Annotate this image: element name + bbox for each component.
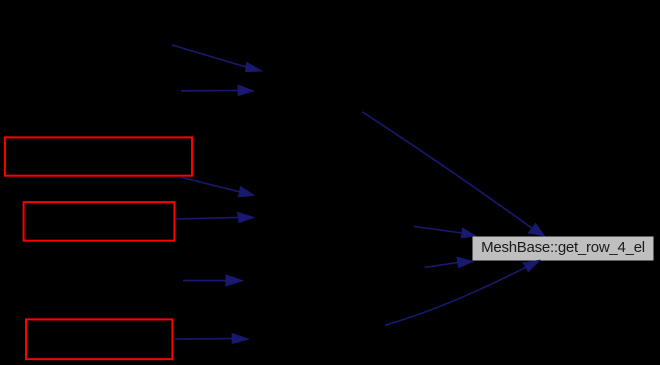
edge arrow E3: long diagonal from top middle node to MeshBase::get_row_4_el <box>362 112 544 236</box>
edge arrow E2: second top-left caller to top middle node <box>181 85 254 96</box>
edge arrow E4: from red box R1 to middle node <box>180 177 254 197</box>
edge arrow E6: middle horizontal arrow <box>183 275 243 286</box>
edge arrow E1: top-left caller to top middle node <box>172 45 262 72</box>
edge arrow E5: from red box R2 to middle node <box>176 212 254 222</box>
edge arrow E8: middle node into left edge of MeshBase::get_row_4_el <box>414 227 475 238</box>
edge arrow E9: lower middle node into bottom-left corner of MeshBase::get_row_4_el <box>425 257 473 267</box>
node box R2 (red highlighted caller) <box>24 202 175 241</box>
edge arrow E7: from red box R3 to lower middle node <box>175 333 249 343</box>
node MeshBase::get_row_4_el (current node, gray) <box>472 236 654 261</box>
node box R1 (red highlighted caller) <box>5 137 192 175</box>
svg-text:MeshBase::get_row_4_el: MeshBase::get_row_4_el <box>481 239 645 256</box>
node box R3 (red highlighted caller) <box>26 319 172 359</box>
edge arrow E10: curved edge from bottom node into bottom edge of MeshBase::get_row_4_el <box>385 260 539 325</box>
